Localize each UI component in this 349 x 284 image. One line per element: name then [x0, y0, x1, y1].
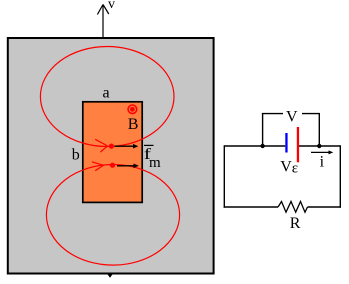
- wire: voltmeter top right segment: [302, 113, 320, 115]
- svg-text:m: m: [149, 155, 161, 171]
- junction dot left: [260, 144, 264, 148]
- svg-text:v: v: [108, 0, 115, 12]
- svg-text:R: R: [290, 215, 301, 232]
- field line arrowhead (lower): [92, 162, 104, 171]
- wire: right vertical of loop: [339, 145, 341, 207]
- wire: voltmeter branch right vertical: [318, 113, 320, 146]
- field line arrowhead (upper): [95, 139, 107, 152]
- svg-text:a: a: [103, 85, 110, 102]
- field line ellipse (upper): [40, 47, 174, 147]
- bottom tick mark: [108, 275, 113, 278]
- B symbol (field out of page): [128, 105, 137, 114]
- force arrow f_m (lower): [117, 164, 139, 169]
- overbar of f: [144, 144, 154, 146]
- junction dot right: [317, 144, 321, 148]
- conductor bar (orange): [83, 102, 142, 203]
- velocity arrow v: [97, 5, 108, 38]
- battery positive plate (red): [297, 127, 299, 162]
- svg-text:V: V: [280, 158, 292, 175]
- svg-text:i: i: [320, 153, 325, 170]
- charge dot (lower): [110, 163, 115, 168]
- wire: bottom left segment: [224, 206, 278, 208]
- svg-text:B: B: [128, 116, 139, 133]
- resistor R: [278, 202, 308, 213]
- field line ellipse (lower): [46, 165, 179, 266]
- wire: voltmeter branch left vertical: [262, 113, 264, 146]
- wire: main left (from loop corner to battery): [224, 145, 285, 147]
- wire: left vertical of loop: [223, 145, 225, 207]
- wire: voltmeter top left segment: [262, 113, 283, 115]
- wire: main right (battery to right corner): [299, 145, 340, 147]
- charge dot (upper): [109, 144, 114, 149]
- svg-text:ε: ε: [292, 161, 298, 177]
- force arrow f_m (upper): [115, 144, 139, 149]
- battery negative plate (blue): [285, 133, 287, 153]
- wire: bottom right segment: [308, 206, 342, 208]
- gray field region (magnet face): [8, 38, 214, 274]
- current arrow i: [311, 150, 333, 154]
- svg-text:b: b: [72, 147, 80, 164]
- svg-text:V: V: [286, 108, 298, 125]
